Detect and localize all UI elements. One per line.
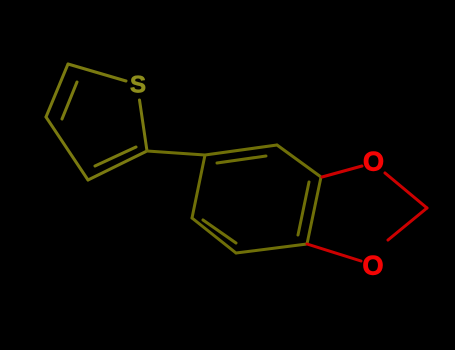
bond O2-v4 [307,244,361,261]
double bond inner line v5=v6 [203,220,236,243]
bond C5-C4 [46,64,68,117]
bond v1-v2 [205,145,277,155]
bond v3-v4 [307,177,321,244]
svg-text:S: S [130,72,146,99]
bond CH2-O2 [388,208,427,240]
bond C4-C3 [46,117,88,180]
bond C3-C2 [88,151,147,180]
bond v5-v6 [192,218,236,253]
double bond inner line v3=v4 [298,182,309,235]
bond S-C2 [140,100,148,151]
bond O1-CH2 [385,173,427,208]
thiophene ring [46,64,147,180]
benzene ring [192,145,321,253]
dioxole ring red bonds [307,166,427,261]
double bond inner line v1=v2 [217,156,266,163]
bond v3-O1 [322,166,362,177]
double bond inner line C4=C5 [62,82,77,119]
double bond inner line C2=C3 [95,147,136,166]
bond C5-S [68,64,126,81]
svg-text:O: O [363,147,384,177]
svg-text:O: O [362,251,383,281]
bond v6-v1 [192,155,205,218]
bond v4-v5 [236,244,307,253]
bond C2-benzene (biaryl link) [147,151,205,155]
bond v2-v3 [277,145,321,177]
